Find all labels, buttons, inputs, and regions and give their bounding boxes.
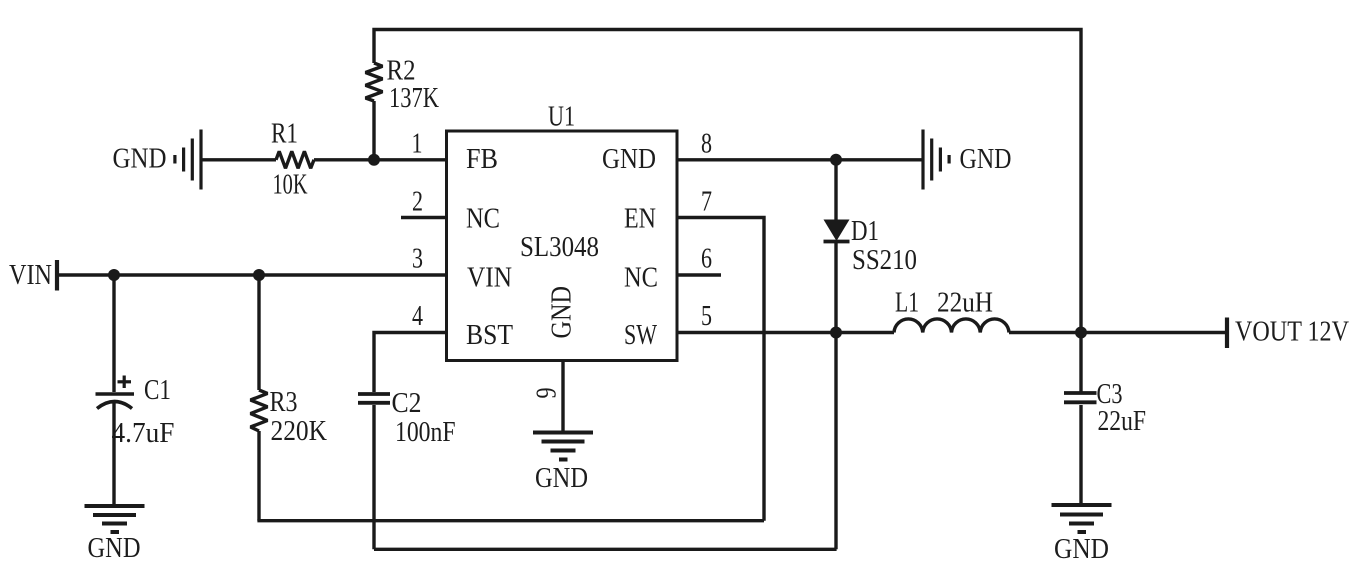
svg-text:137K: 137K	[389, 83, 439, 114]
wire C3 bottom to GND	[1079, 405, 1082, 505]
wire top feedback line VOUT to R2	[374, 30, 1081, 333]
svg-text:BST: BST	[466, 320, 513, 351]
svg-text:GND: GND	[960, 144, 1012, 175]
svg-text:GND: GND	[1054, 534, 1109, 565]
svg-text:1: 1	[412, 129, 423, 160]
wire VIN net to pin 3	[57, 273, 447, 276]
svg-text:3: 3	[412, 244, 423, 275]
ground below C3	[1052, 505, 1112, 532]
svg-text:GND: GND	[113, 144, 167, 175]
svg-text:C1: C1	[144, 375, 171, 406]
svg-text:L1: L1	[895, 288, 919, 319]
svg-text:D1: D1	[851, 216, 879, 247]
wire C3 top from VOUT node	[1079, 333, 1082, 393]
svg-text:5: 5	[701, 301, 712, 332]
svg-text:C2: C2	[392, 388, 422, 419]
node SW/D1 junction	[830, 327, 842, 339]
svg-text:FB: FB	[466, 144, 498, 175]
ground below C1	[85, 506, 145, 532]
svg-text:VOUT 12V: VOUT 12V	[1235, 317, 1349, 348]
svg-text:SL3048: SL3048	[520, 232, 599, 263]
resistor R3	[251, 390, 268, 431]
node pin8/D1 junction	[830, 154, 842, 166]
wire bottom line C2 to SW/D1 line	[374, 548, 837, 551]
wire L1 to VOUT port	[1009, 331, 1227, 334]
wire pin 6 stub	[676, 273, 721, 276]
svg-text:7: 7	[701, 187, 712, 218]
C1 plus sign	[118, 376, 132, 389]
wire pin 9 to GND	[561, 360, 564, 432]
capacitor C1 plates (polarized)	[96, 394, 135, 409]
svg-text:220K: 220K	[271, 416, 328, 447]
port VIN bar	[55, 260, 59, 291]
wire C1 top from VIN node	[112, 275, 115, 392]
wire SW pin 5 to L1	[676, 331, 894, 334]
wire pin 7 EN stub and down	[676, 218, 764, 521]
node FB junction	[368, 154, 380, 166]
capacitor C3 plates	[1064, 393, 1097, 402]
svg-text:R2: R2	[387, 56, 416, 87]
wire pin 8 to GND symbol	[676, 158, 923, 161]
resistor R1	[276, 151, 314, 168]
svg-text:GND: GND	[88, 533, 141, 564]
svg-text:R3: R3	[270, 387, 298, 418]
resistor R2	[366, 63, 383, 101]
IC U1 SL3048 body	[447, 131, 678, 361]
svg-text:22uH: 22uH	[937, 288, 993, 319]
ground below pin 9	[533, 433, 593, 460]
svg-text:2: 2	[412, 187, 423, 218]
capacitor C2 plates	[358, 394, 390, 403]
svg-text:4: 4	[412, 301, 423, 332]
wire pin8 node down to D1 anode	[834, 160, 837, 221]
wire R3 top from VIN node	[257, 275, 260, 390]
ground (right, rotated) near pin 8	[923, 130, 949, 190]
svg-text:22uF: 22uF	[1098, 406, 1147, 437]
inductor L1	[894, 319, 1009, 333]
svg-text:VIN: VIN	[9, 260, 52, 291]
ground (left, rotated) near R1	[175, 130, 201, 190]
svg-text:SW: SW	[624, 320, 657, 351]
svg-text:EN: EN	[624, 204, 656, 235]
svg-text:R1: R1	[271, 119, 298, 150]
svg-text:GND: GND	[547, 286, 578, 339]
svg-text:VIN: VIN	[467, 263, 512, 294]
node VOUT/C3 junction	[1075, 327, 1087, 339]
svg-text:GND: GND	[602, 144, 656, 175]
svg-text:SS210: SS210	[852, 245, 917, 276]
svg-text:4.7uF: 4.7uF	[112, 418, 175, 449]
wire R2 bottom to FB node	[372, 101, 375, 160]
svg-text:9: 9	[532, 388, 563, 399]
wire R1 right to pin 1	[314, 158, 447, 161]
node VIN/R3 junction	[253, 269, 265, 281]
wire GND to R1 to FB (pin 1 net)	[201, 158, 276, 161]
node VIN/C1 junction	[108, 269, 120, 281]
wire BST pin 4 stub and down to C2	[374, 333, 447, 393]
svg-text:8: 8	[701, 129, 712, 160]
wire C1 bottom to GND	[112, 403, 115, 506]
diode D1 SS210	[824, 220, 850, 242]
svg-text:100nF: 100nF	[395, 417, 456, 448]
wire R3 bottom down	[257, 431, 260, 521]
svg-text:10K: 10K	[273, 170, 308, 201]
svg-text:GND: GND	[535, 463, 588, 494]
wire D1 cathode down through SW node to bottom line	[834, 243, 837, 549]
svg-text:6: 6	[701, 244, 712, 275]
svg-text:U1: U1	[548, 102, 575, 133]
port VOUT bar	[1225, 318, 1229, 349]
svg-text:NC: NC	[466, 204, 500, 235]
wire pin 2 stub	[401, 216, 447, 219]
wire bottom line R3 to EN	[257, 519, 764, 522]
wire C2 bottom down	[372, 405, 375, 549]
svg-text:NC: NC	[624, 263, 658, 294]
